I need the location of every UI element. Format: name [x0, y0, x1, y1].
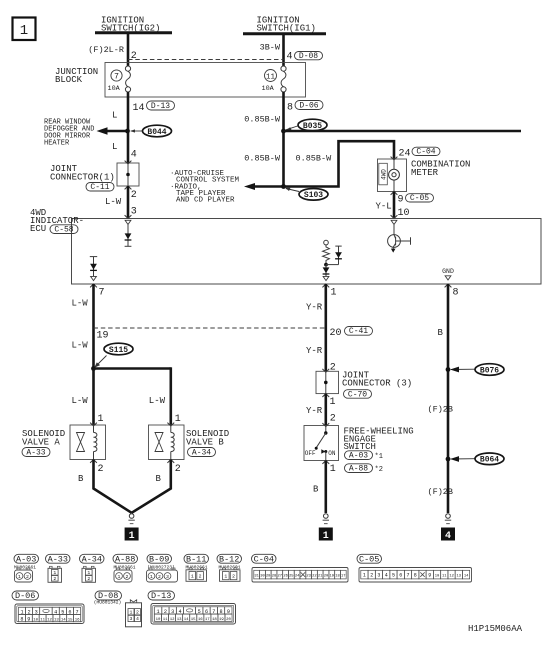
- svg-text:ON: ON: [328, 450, 336, 457]
- wire from S103 to combination meter: [284, 141, 395, 186]
- svg-text:12: 12: [449, 574, 454, 578]
- svg-text:B064: B064: [480, 456, 499, 465]
- wire label L upper: [112, 111, 117, 121]
- svg-text:10: 10: [435, 574, 440, 578]
- svg-text:C-05: C-05: [359, 554, 379, 564]
- wire B from switch to ground: [324, 461, 327, 514]
- connector table label A-33: [46, 554, 71, 564]
- svg-text:D-06: D-06: [299, 101, 318, 110]
- svg-text:1: 1: [129, 531, 135, 542]
- pin 1 of free-wheeling switch: [330, 464, 336, 475]
- ignition switch IG2 label: [101, 16, 160, 34]
- svg-text:(F)2B: (F)2B: [428, 487, 454, 497]
- tick to B044 oval: [130, 129, 143, 132]
- svg-text:8: 8: [414, 572, 417, 578]
- combination meter label: [411, 160, 470, 179]
- connector label C-41: [345, 327, 373, 337]
- svg-text:A-88: A-88: [115, 554, 135, 564]
- svg-text:18: 18: [335, 574, 340, 578]
- connector C-41 dashed line: [94, 327, 326, 329]
- svg-text:17: 17: [205, 618, 210, 622]
- svg-text:14: 14: [464, 574, 469, 578]
- svg-text:L: L: [112, 142, 117, 152]
- arrow from B076 oval: [450, 367, 475, 373]
- part number MU802723 B-09: [147, 564, 175, 570]
- svg-text:1: 1: [98, 414, 104, 425]
- svg-text:BLOCK: BLOCK: [55, 75, 83, 85]
- svg-text:19: 19: [97, 331, 109, 342]
- svg-text:9: 9: [428, 572, 431, 578]
- connector table label D-13: [148, 591, 175, 601]
- svg-text:13: 13: [54, 619, 59, 623]
- svg-text:2: 2: [370, 572, 373, 578]
- wire label Y-R 2: [306, 346, 323, 356]
- connector label C-58: [50, 225, 78, 235]
- svg-text:L: L: [112, 111, 117, 121]
- switch ON label: [328, 450, 336, 457]
- svg-text:A-03: A-03: [16, 554, 36, 564]
- tick to S103 oval: [285, 188, 299, 192]
- svg-text:OFF: OFF: [305, 450, 316, 457]
- svg-text:1: 1: [150, 574, 153, 580]
- svg-text:B-09: B-09: [149, 554, 169, 564]
- pin 3 of ECU: [131, 207, 137, 218]
- ECU pin 3 entry chevron: [125, 215, 132, 218]
- svg-text:C-41: C-41: [349, 327, 368, 336]
- svg-text:12: 12: [47, 619, 52, 623]
- solenoid valve A label: [22, 429, 65, 448]
- svg-text:3: 3: [166, 574, 169, 580]
- ground symbol switch: [323, 514, 329, 524]
- svg-text:4: 4: [287, 52, 293, 63]
- connector label D-08: [295, 52, 323, 62]
- pin 1 of ECU: [331, 288, 337, 299]
- connector label A-88 with *2: [345, 464, 373, 474]
- connector table label A-34: [80, 554, 105, 564]
- svg-text:19: 19: [330, 574, 335, 578]
- svg-text:SWITCH(IG1): SWITCH(IG1): [257, 24, 316, 34]
- rear window defogger text: [44, 119, 94, 148]
- svg-text:METER: METER: [411, 168, 439, 178]
- svg-text:2: 2: [330, 414, 336, 425]
- fuse 7 symbol: [125, 66, 130, 92]
- connector table label C-04: [252, 554, 277, 564]
- svg-text:2: 2: [87, 576, 90, 582]
- connector icon C-04 pin strip: [252, 568, 348, 583]
- bus wire to right from B035: [284, 130, 522, 133]
- branch arrow to accessories: [244, 183, 284, 190]
- wire label L-W valve B: [149, 396, 166, 406]
- svg-text:Y-R: Y-R: [306, 346, 323, 356]
- connector table label B-09: [147, 554, 172, 564]
- svg-text:0.85B-W: 0.85B-W: [244, 115, 281, 125]
- svg-text:13: 13: [457, 574, 462, 578]
- svg-text:1: 1: [130, 610, 133, 616]
- junction node B076: [446, 367, 451, 372]
- svg-text:2: 2: [26, 574, 29, 580]
- svg-text:1: 1: [87, 570, 90, 576]
- svg-text:5: 5: [392, 572, 395, 578]
- svg-text:8: 8: [20, 617, 23, 623]
- connector icon A-03: [15, 568, 33, 582]
- svg-text:22: 22: [312, 574, 317, 578]
- wire L-W into ECU pin 3: [127, 186, 130, 219]
- ground wires from valves: [94, 460, 171, 513]
- combination meter entry chevron: [391, 157, 398, 160]
- 4WD indicator ECU box: [72, 219, 542, 285]
- connector D-08 dashed line: [128, 59, 284, 61]
- svg-text:10A: 10A: [108, 85, 121, 93]
- svg-text:L-W: L-W: [72, 341, 89, 351]
- wire label L lower: [112, 142, 117, 152]
- free-wheeling switch exit chevron: [322, 461, 329, 464]
- indicator lamp: [389, 159, 400, 192]
- arrow from B064 oval: [450, 456, 475, 462]
- connector table label A-88: [113, 554, 138, 564]
- joint connector 1 label: [50, 164, 115, 183]
- svg-text:29: 29: [266, 574, 271, 578]
- svg-text:26: 26: [283, 574, 288, 578]
- svg-text:B: B: [438, 328, 444, 338]
- pin 4 of D-08: [287, 52, 293, 63]
- connector label C-11: [86, 183, 114, 193]
- svg-text:A-34: A-34: [192, 448, 211, 457]
- joint connector 3 entry chevron: [322, 369, 329, 372]
- svg-text:0.85B-W: 0.85B-W: [296, 154, 333, 164]
- solenoid valve B label: [186, 429, 229, 448]
- svg-text:L-W: L-W: [149, 396, 166, 406]
- connector icon B-09: [147, 568, 178, 582]
- wire label B valve A: [78, 474, 84, 484]
- connector label D-06: [295, 101, 323, 111]
- svg-text:S103: S103: [304, 191, 323, 200]
- svg-text:(MU801342): (MU801342): [94, 599, 122, 605]
- part number MU802661 A-88: [113, 564, 135, 570]
- ECU GND label: [442, 268, 454, 275]
- pin 2 of free-wheeling switch: [330, 414, 336, 425]
- wire label 3B-W: [260, 43, 281, 53]
- svg-text:L-W: L-W: [72, 299, 89, 309]
- wire label L-W 2: [72, 341, 89, 351]
- tick from S115 to junction: [94, 356, 106, 368]
- svg-text:GND: GND: [442, 268, 454, 275]
- svg-text:A-03: A-03: [349, 452, 368, 461]
- rear window defogger branch arrow: [97, 127, 128, 134]
- pin 20 of C-41: [330, 328, 342, 339]
- svg-text:7: 7: [99, 288, 105, 299]
- svg-text:A-88: A-88: [349, 465, 368, 474]
- ECU GND internal triangle: [445, 276, 451, 280]
- wire label Y-L: [376, 202, 392, 212]
- svg-text:Y-R: Y-R: [306, 303, 323, 313]
- pin 1 of solenoid valve B: [175, 414, 181, 425]
- joint connector 1 box: [117, 163, 139, 186]
- 4WD indicator cell: [379, 163, 388, 185]
- svg-text:C-70: C-70: [348, 390, 367, 399]
- svg-text:11: 11: [40, 619, 45, 623]
- svg-text:19: 19: [219, 618, 224, 622]
- pin 14 of D-13: [133, 103, 145, 114]
- svg-text:1: 1: [330, 464, 336, 475]
- svg-text:A-34: A-34: [82, 554, 102, 564]
- svg-text:9: 9: [398, 195, 404, 206]
- fuse 7 rating 10A: [108, 85, 121, 93]
- junction node B044: [125, 129, 130, 134]
- ground symbol right: [445, 514, 451, 524]
- diode on pin 7 branch: [90, 257, 97, 277]
- wire label 0.85B-W left of wire2: [244, 154, 281, 164]
- wire L-W from ECU pin 7: [92, 284, 95, 369]
- pin 2 of joint connector 3: [330, 363, 336, 374]
- connector table label A-03: [14, 554, 39, 564]
- pin 8 of D-06: [287, 103, 293, 114]
- svg-text:*1: *1: [375, 453, 383, 461]
- combination meter exit chevron: [391, 192, 398, 195]
- svg-text:L-W: L-W: [72, 396, 89, 406]
- svg-text:B: B: [156, 474, 162, 484]
- svg-text:16: 16: [75, 619, 80, 623]
- svg-text:2: 2: [136, 610, 139, 616]
- svg-text:CONNECTOR(1): CONNECTOR(1): [50, 173, 115, 183]
- connector icon B-11: [186, 568, 207, 582]
- wire label Y-R 1: [306, 303, 323, 313]
- svg-text:2: 2: [232, 574, 235, 580]
- connector label A-34: [188, 448, 216, 458]
- svg-text:1: 1: [224, 574, 227, 580]
- svg-text:C-04: C-04: [254, 554, 274, 564]
- pin 9 of C-05: [398, 195, 404, 206]
- pin 2 of D-08: [131, 51, 137, 62]
- svg-text:11: 11: [163, 618, 168, 622]
- svg-text:3: 3: [131, 207, 137, 218]
- wire B from ECU pin 8 to ground: [447, 284, 450, 513]
- svg-text:23: 23: [306, 574, 311, 578]
- svg-text:Y-R: Y-R: [306, 406, 323, 416]
- wire label 0.85B-W upper: [244, 115, 281, 125]
- wire label B right: [438, 328, 444, 338]
- svg-text:D-13: D-13: [151, 102, 170, 111]
- svg-text:1: 1: [363, 572, 366, 578]
- connector label A-03 with *1: [345, 451, 373, 461]
- svg-text:14: 14: [133, 103, 145, 114]
- svg-text:25: 25: [289, 574, 294, 578]
- svg-text:1: 1: [175, 414, 181, 425]
- ECU pin 1 exit chevron: [322, 284, 329, 287]
- svg-text:B076: B076: [480, 366, 499, 375]
- solenoid valve A: [70, 423, 106, 463]
- joint connector 1 exit chevron: [125, 186, 132, 189]
- svg-text:B-12: B-12: [219, 554, 239, 564]
- splice B076: [475, 364, 504, 376]
- accessories text block: [170, 170, 240, 205]
- ECU pin 3 internal triangle: [125, 220, 131, 224]
- svg-text:VALVE B: VALVE B: [186, 438, 224, 448]
- svg-text:D-06: D-06: [15, 591, 35, 601]
- connector icon C-05 pin strip: [359, 568, 472, 583]
- joint connector 3 internal wire and node: [324, 371, 328, 393]
- svg-text:31: 31: [254, 574, 259, 578]
- ECU pin 10 internal triangle: [391, 220, 397, 224]
- pin 7 of ECU: [99, 288, 105, 299]
- svg-text:18: 18: [212, 618, 217, 622]
- svg-text:B: B: [78, 474, 84, 484]
- fuse 11 number: [265, 70, 277, 82]
- svg-text:(F)2L-R: (F)2L-R: [88, 45, 124, 55]
- pin 4 of joint connector 1: [131, 150, 137, 161]
- svg-text:2: 2: [131, 190, 137, 201]
- connector table label D-08: [95, 591, 122, 601]
- svg-text:20: 20: [324, 574, 329, 578]
- svg-text:28: 28: [272, 574, 277, 578]
- connector icon D-06: [15, 604, 84, 624]
- connector table label B-12: [217, 554, 242, 564]
- connector icon A-33: [48, 566, 62, 582]
- switch OFF label: [305, 450, 316, 457]
- svg-text:15: 15: [68, 619, 73, 623]
- connector label C-70: [344, 390, 372, 400]
- connector icon A-88: [114, 568, 132, 582]
- splice S115: [104, 343, 133, 355]
- svg-text:1: 1: [191, 574, 194, 580]
- wire 3B-W from IG1: [282, 34, 285, 66]
- svg-text:C-05: C-05: [410, 194, 429, 203]
- connector icon D-13: [151, 604, 236, 625]
- transistor in ECU: [388, 225, 411, 253]
- svg-text:1: 1: [18, 574, 21, 580]
- svg-text:12: 12: [170, 618, 175, 622]
- svg-text:4WD: 4WD: [381, 169, 388, 180]
- tick to B035 oval: [285, 126, 298, 131]
- solenoid valve B: [149, 423, 185, 463]
- wire Y-L to ECU pin 10: [393, 192, 396, 219]
- pin 24 of C-04: [399, 149, 411, 160]
- free-wheeling switch contacts: [315, 426, 328, 461]
- fuse 7 number: [111, 70, 122, 82]
- connector icon A-34: [82, 566, 96, 582]
- ECU pin 7 internal triangle: [91, 276, 97, 280]
- svg-text:AND CD PLAYER: AND CD PLAYER: [176, 197, 235, 205]
- joint connector 3 box: [316, 371, 339, 393]
- svg-text:C-04: C-04: [416, 148, 435, 157]
- svg-text:7: 7: [406, 572, 409, 578]
- svg-text:L-W: L-W: [105, 197, 122, 207]
- svg-text:9: 9: [27, 617, 30, 623]
- ground symbol valves: [128, 514, 134, 524]
- svg-text:21: 21: [318, 574, 323, 578]
- splice S103: [299, 189, 328, 201]
- junction node S115: [91, 366, 96, 371]
- svg-text:3: 3: [377, 572, 380, 578]
- diode on pin 3 branch: [125, 225, 132, 247]
- pin 1 of solenoid valve A: [98, 414, 104, 425]
- ECU pin 8 exit chevron: [445, 284, 452, 287]
- svg-text:11: 11: [442, 574, 447, 578]
- svg-text:2: 2: [175, 464, 181, 475]
- svg-text:B-11: B-11: [186, 554, 206, 564]
- svg-text:B044: B044: [147, 128, 166, 137]
- svg-text:2: 2: [199, 574, 202, 580]
- resistor and diodes on ECU pin 1: [323, 240, 342, 276]
- ground number box 1 valves: [125, 528, 139, 542]
- ground number box 1 switch: [319, 528, 333, 542]
- svg-text:VALVE A: VALVE A: [22, 438, 60, 448]
- svg-text:D-08: D-08: [299, 52, 318, 61]
- pin 19 of C-41: [97, 331, 109, 342]
- svg-text:4: 4: [445, 531, 451, 542]
- ignition switch IG1 bus bar: [243, 32, 326, 35]
- svg-text:(F)2B: (F)2B: [428, 405, 454, 415]
- pin 1 of joint connector 3: [330, 397, 336, 408]
- svg-text:A-33: A-33: [26, 448, 45, 457]
- svg-text:24: 24: [399, 149, 411, 160]
- ECU pin 1 internal triangle: [323, 276, 329, 280]
- svg-text:D-13: D-13: [151, 591, 171, 601]
- svg-text:2: 2: [131, 51, 137, 62]
- free-wheeling engage switch box: [304, 426, 339, 461]
- svg-text:13: 13: [177, 618, 182, 622]
- wire label Y-R 3: [306, 406, 323, 416]
- svg-text:4: 4: [385, 572, 388, 578]
- svg-text:6: 6: [399, 572, 402, 578]
- connector label C-05: [406, 194, 434, 204]
- wire label (F)2L-R: [88, 45, 124, 55]
- connector label C-04: [412, 147, 440, 157]
- svg-text:3B-W: 3B-W: [260, 43, 281, 53]
- svg-text:A-33: A-33: [48, 554, 68, 564]
- svg-text:Y-L: Y-L: [376, 202, 392, 212]
- part number MU802661 B-11: [185, 564, 207, 570]
- svg-text:C-58: C-58: [54, 226, 73, 235]
- ground number box 4: [441, 528, 455, 542]
- splice B044: [143, 125, 172, 137]
- page number box 1: [13, 18, 36, 41]
- splice B035: [298, 119, 327, 131]
- svg-text:24: 24: [295, 574, 300, 578]
- svg-text:1: 1: [330, 397, 336, 408]
- svg-text:C-11: C-11: [90, 183, 109, 192]
- branch wire to solenoid valve B: [94, 367, 171, 425]
- svg-text:1: 1: [118, 574, 121, 580]
- ignition switch IG1 label: [257, 16, 316, 34]
- svg-text:10: 10: [398, 208, 410, 219]
- svg-text:CONNECTOR (3): CONNECTOR (3): [342, 379, 412, 389]
- ECU pin 10 entry chevron: [391, 215, 398, 218]
- wire label (F)2B lower: [428, 487, 454, 497]
- wire label L-W 1: [72, 299, 89, 309]
- ignition switch IG2 bus bar: [95, 31, 172, 34]
- svg-text:4: 4: [131, 150, 137, 161]
- part number MU802601 B-12: [218, 564, 240, 570]
- wire L below junction block: [127, 92, 130, 163]
- svg-text:B: B: [313, 485, 319, 495]
- svg-text:20: 20: [226, 618, 231, 622]
- junction node B035: [281, 129, 286, 134]
- wire label B switch: [313, 485, 319, 495]
- junction block label: [55, 67, 98, 85]
- joint connector 1 internal wire and node: [126, 163, 130, 186]
- splice B064: [475, 453, 504, 465]
- fuse 11 symbol: [281, 66, 286, 92]
- svg-text:10: 10: [33, 619, 38, 623]
- svg-text:8: 8: [287, 103, 293, 114]
- svg-text:ECU: ECU: [30, 224, 46, 234]
- svg-text:2: 2: [158, 574, 161, 580]
- svg-text:S115: S115: [109, 346, 128, 355]
- connector icon B-12: [220, 568, 241, 582]
- wire Y-R from ECU pin 1: [324, 284, 327, 371]
- svg-text:1: 1: [53, 570, 56, 576]
- svg-text:B035: B035: [303, 122, 322, 131]
